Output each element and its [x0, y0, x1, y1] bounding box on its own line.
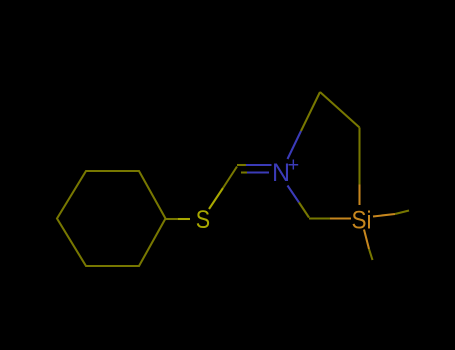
svg-text:+: +	[288, 155, 300, 177]
svg-text:Si: Si	[352, 206, 372, 234]
svg-text:S: S	[196, 205, 210, 233]
